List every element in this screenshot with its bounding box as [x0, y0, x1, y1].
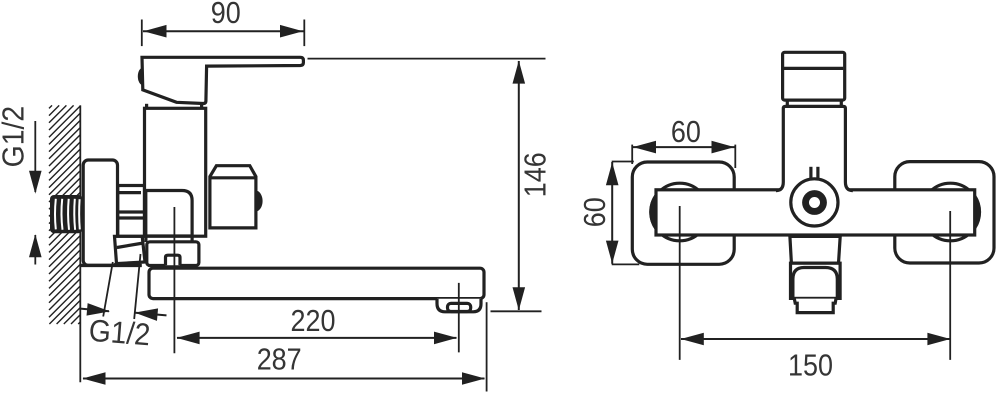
hex nut	[118, 186, 145, 237]
dim 90	[141, 20, 143, 47]
left wall plate	[632, 162, 734, 264]
shower tip	[794, 299, 836, 313]
wall face line	[79, 105, 81, 382]
bottom box notch	[166, 255, 181, 265]
dim 220	[173, 207, 175, 353]
dim 60 top	[631, 145, 633, 164]
central knob circle	[791, 179, 838, 226]
outlet knob	[256, 191, 263, 212]
G1/2 pointer arrow down	[29, 171, 42, 194]
G1/2 pointer leader tail	[34, 235, 36, 265]
central body	[776, 108, 853, 193]
top shower connector knob	[783, 52, 845, 100]
svg-text:60: 60	[671, 114, 701, 149]
aerator	[437, 299, 481, 312]
spout	[149, 268, 484, 298]
G1/2 pointer leader down	[34, 121, 36, 192]
shower outlet body	[791, 263, 841, 298]
handle	[142, 57, 303, 103]
svg-text:G1/2: G1/2	[88, 313, 152, 353]
svg-text:150: 150	[788, 348, 833, 383]
diverter neck	[790, 236, 840, 263]
neck ticks	[145, 104, 148, 109]
right union circle	[922, 183, 980, 241]
left union circle	[651, 183, 709, 241]
svg-text:220: 220	[291, 303, 336, 338]
dim 287	[486, 302, 488, 391]
bottom box	[147, 242, 199, 266]
bottom connector ticks	[144, 236, 147, 242]
svg-text:146: 146	[518, 152, 553, 197]
G1/2 wall thread pipe	[50, 195, 82, 233]
knob donut	[802, 190, 827, 215]
dim 60 left	[612, 161, 634, 163]
faucet body	[145, 108, 206, 236]
prongs	[809, 167, 812, 180]
dim G1/2 lower	[103, 262, 113, 317]
wall flange escutcheon	[83, 160, 117, 265]
wall hatching	[49, 105, 81, 324]
bar body	[656, 190, 975, 235]
right wall plate	[895, 162, 994, 263]
handle pivot bump	[138, 68, 143, 86]
svg-text:287: 287	[257, 342, 302, 377]
dim 146	[308, 58, 546, 60]
svg-text:G1/2: G1/2	[0, 106, 30, 168]
collar	[786, 100, 789, 106]
dim 150	[679, 206, 681, 360]
flange base line	[81, 264, 142, 267]
shower dome	[793, 268, 837, 299]
aerator insert	[448, 303, 471, 311]
valve box	[146, 191, 192, 237]
svg-text:90: 90	[211, 0, 241, 30]
eccentric connector (tilted)	[115, 236, 146, 263]
shower outlet (side)	[210, 166, 256, 228]
svg-text:60: 60	[577, 197, 612, 227]
G1/2 pointer arrow up	[29, 234, 42, 257]
